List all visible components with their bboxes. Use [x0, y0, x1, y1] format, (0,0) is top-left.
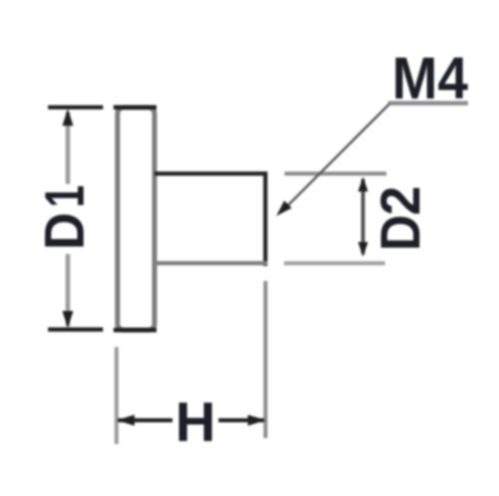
dimension D2 extension line top	[285, 172, 387, 176]
dimension D2 extension line bottom	[284, 261, 385, 265]
svg-text:D: D	[370, 215, 432, 251]
dimension H extension line right	[264, 281, 268, 438]
svg-text:2: 2	[369, 186, 432, 216]
dimension D1 arrow down	[62, 311, 73, 328]
dimension H arrow left	[117, 415, 135, 426]
dimension D1 extension tick bottom	[48, 327, 103, 331]
flange bottom edge	[114, 328, 157, 332]
dimension D1 extension tick top	[48, 105, 103, 109]
dimension D2 arrow up	[358, 177, 368, 192]
svg-text:M4: M4	[392, 45, 468, 112]
svg-text:1: 1	[34, 185, 96, 207]
svg-text:D: D	[34, 212, 96, 250]
dimension D1 line lower segment	[66, 254, 71, 326]
dimension H line left segment	[118, 418, 173, 422]
dimension D1 line upper segment	[66, 112, 71, 184]
dimension H line right segment	[219, 418, 265, 422]
dimension H extension line left	[115, 347, 119, 444]
leader diagonal line	[281, 104, 390, 213]
leader underline for M4	[388, 101, 468, 105]
flange body (side view, vertical plate)	[118, 108, 155, 331]
leader arrowhead	[276, 201, 291, 216]
dimension D1 arrow up	[62, 109, 73, 126]
dimension D2 line	[361, 179, 365, 254]
cylinder body top and right edges	[155, 174, 266, 266]
flange top edge	[114, 105, 157, 109]
dimension D2 arrow down	[358, 242, 368, 257]
cylinder body bottom edge	[155, 261, 268, 265]
svg-text:H: H	[175, 390, 215, 453]
dimension H arrow right	[248, 415, 266, 426]
